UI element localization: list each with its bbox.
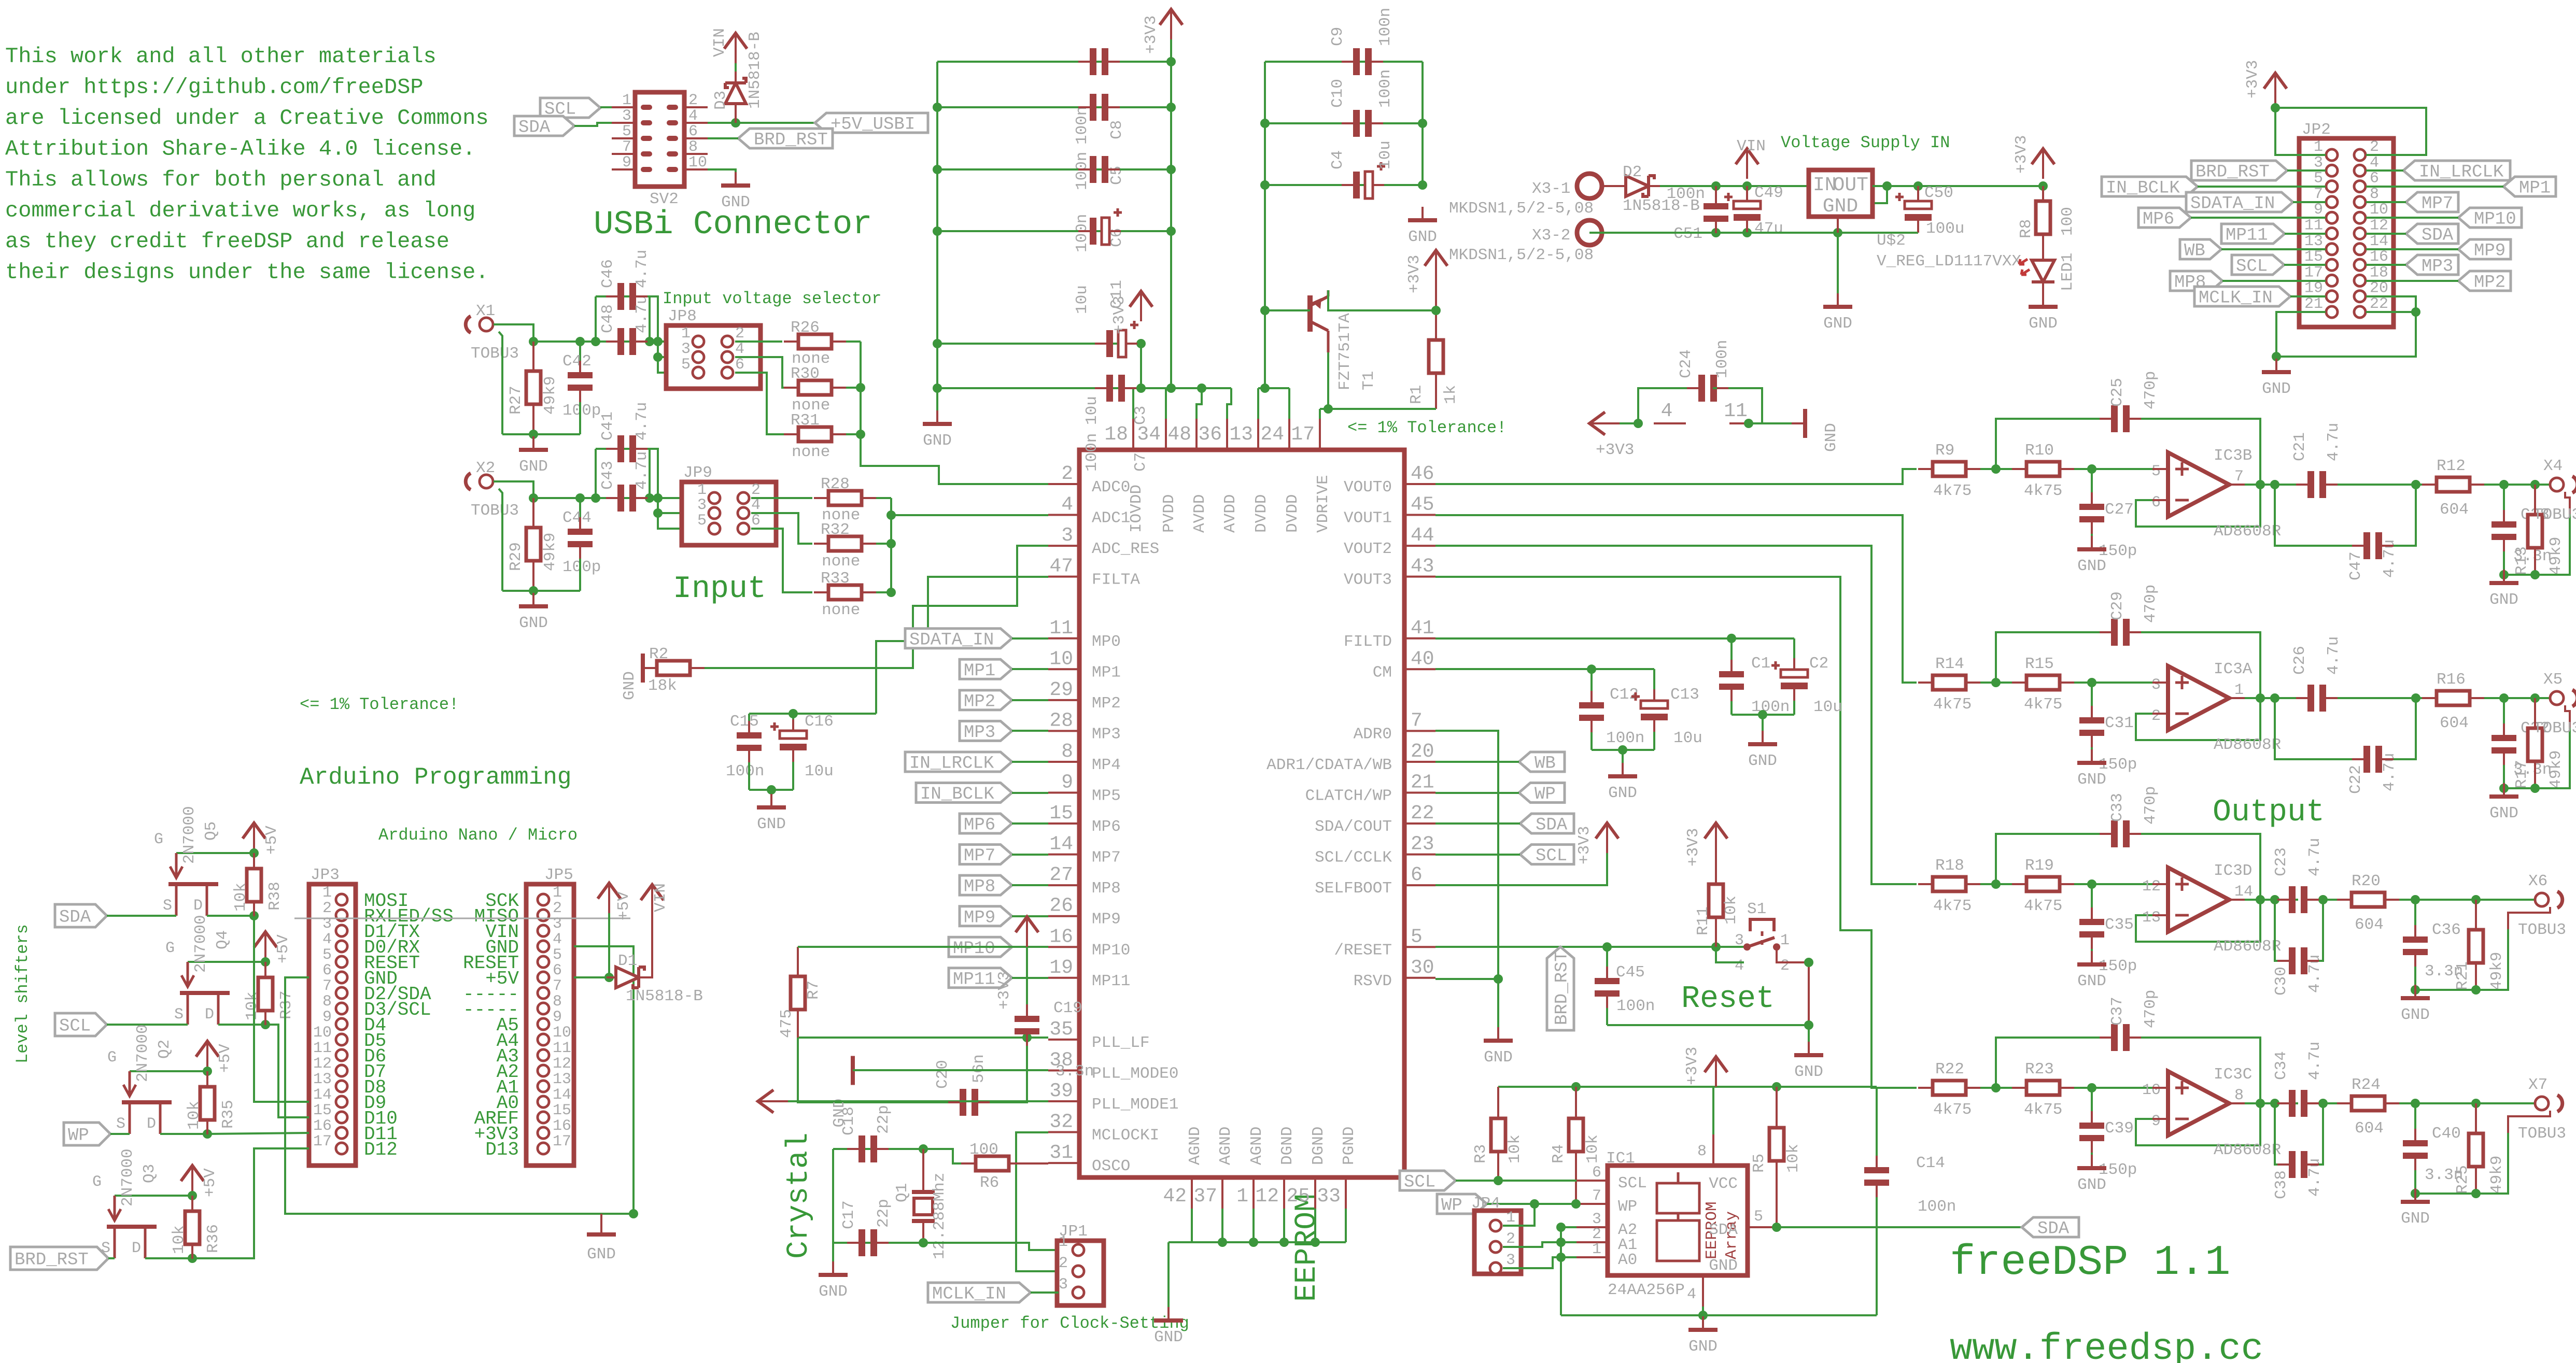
wire C39 bot	[2091, 1143, 2093, 1166]
svg-text:GND: GND	[1822, 423, 1840, 452]
svg-text:20: 20	[1411, 741, 1434, 763]
svg-text:48: 48	[1167, 423, 1191, 446]
svg-text:4.7u: 4.7u	[2306, 1042, 2324, 1080]
capacitor C16	[770, 713, 834, 780]
capacitor C22	[2347, 746, 2399, 794]
svg-text:29: 29	[1049, 679, 1073, 701]
svg-text:JP4: JP4	[1471, 1195, 1500, 1213]
wire tail gnd rail	[2504, 728, 2570, 788]
svg-text:TOBU3: TOBU3	[471, 502, 519, 520]
svg-text:16: 16	[553, 1117, 571, 1135]
svg-text:R33: R33	[821, 570, 850, 588]
wire R23 out	[2060, 1087, 2168, 1089]
header JP5 pins	[463, 884, 571, 1160]
svg-text:MP8: MP8	[1092, 879, 1121, 898]
capacitor C15	[726, 713, 764, 780]
+3V3 arrow selfboot	[1575, 823, 1618, 864]
wire R25 col	[2475, 1103, 2477, 1134]
wire gate Q5	[176, 852, 254, 854]
junction D Q5	[249, 911, 259, 920]
svg-text:MCLK_IN: MCLK_IN	[932, 1285, 1006, 1304]
svg-text:D: D	[147, 1115, 156, 1133]
svg-text:27: 27	[1049, 864, 1073, 886]
svg-text:24AA256P: 24AA256P	[1608, 1281, 1685, 1299]
svg-text:2N7000: 2N7000	[134, 1024, 152, 1082]
right ladder to pins	[1257, 388, 1259, 419]
capacitor C24	[1677, 340, 1732, 402]
svg-text:3: 3	[2314, 154, 2323, 172]
DSP bottom pins	[1163, 1127, 1358, 1209]
svg-text:R8: R8	[2017, 219, 2035, 238]
wire C28 bot	[2503, 542, 2505, 575]
bypass ladder left bus	[936, 62, 938, 415]
wire riser to jack	[2508, 907, 2550, 929]
flag BRD_RST reset	[1547, 947, 1574, 1030]
label X3-2	[1449, 226, 1594, 264]
flag WB	[1519, 752, 1565, 774]
wire R18 out	[1966, 883, 2027, 885]
svg-text:R11: R11	[1694, 906, 1712, 935]
wire tail gnd stub	[2414, 990, 2416, 996]
+3V3 arrow R11	[1684, 823, 1727, 867]
junction D Q3	[188, 1254, 197, 1263]
svg-text:10u: 10u	[1376, 140, 1395, 169]
flag MCLK_IN crystal	[928, 1283, 1031, 1304]
header JP9	[682, 464, 776, 545]
svg-text:GND: GND	[2489, 591, 2518, 609]
svg-text:OUT: OUT	[1833, 174, 1868, 196]
svg-text:AVDD: AVDD	[1221, 494, 1240, 533]
wire bypass right	[2388, 485, 2416, 546]
wire R3 top	[1497, 1087, 1499, 1119]
flag BRD_RST shifter	[10, 1247, 108, 1270]
resistor R1	[1407, 340, 1460, 404]
VIN arrow usbi	[711, 28, 747, 63]
svg-text:4k75: 4k75	[2024, 482, 2062, 500]
wire JP9 pin3 stub	[658, 512, 714, 514]
junction C7 row dots	[1136, 384, 1206, 393]
wire reset gnd stub	[1808, 1025, 1810, 1052]
svg-text:IC3C: IC3C	[2214, 1066, 2252, 1084]
svg-text:44: 44	[1411, 524, 1434, 547]
svg-text:8: 8	[688, 138, 698, 156]
capacitor C46	[599, 250, 651, 310]
resistor R13	[2513, 515, 2565, 575]
ground right ladder	[1408, 207, 1437, 246]
svg-text:+3V3: +3V3	[1110, 296, 1129, 334]
wire C19 drop	[1026, 947, 1028, 1016]
junction D3	[731, 118, 740, 127]
wire JP2 pin1 feed	[2275, 103, 2326, 155]
flag MP1	[960, 659, 1048, 681]
svg-text:2: 2	[688, 92, 698, 109]
svg-text:10: 10	[553, 1024, 571, 1042]
svg-text:Arduino Nano / Micro: Arduino Nano / Micro	[378, 826, 578, 845]
junction after cap	[2411, 693, 2420, 703]
svg-text:X5: X5	[2543, 671, 2563, 689]
svg-text:none: none	[822, 552, 860, 571]
svg-text:12: 12	[2370, 217, 2388, 235]
capacitor C30	[2272, 947, 2324, 996]
junction C24 right	[1744, 419, 1753, 428]
flag MP8	[960, 875, 1048, 897]
svg-text:+5V: +5V	[201, 1168, 219, 1197]
junction R14	[1991, 678, 2001, 687]
junction gate Q5	[249, 848, 259, 858]
svg-text:R37: R37	[277, 990, 295, 1019]
wire R27 bot	[532, 404, 534, 434]
wire SDA to SV2	[574, 123, 612, 126]
svg-text:PVDD: PVDD	[1160, 494, 1178, 533]
tolerance arrow label	[0, 0, 1, 1]
svg-text:R20: R20	[2352, 872, 2381, 890]
connector X1	[466, 302, 519, 363]
svg-text:40: 40	[1411, 648, 1434, 670]
svg-text:15: 15	[553, 1102, 571, 1119]
junction JP2 gnd	[2272, 352, 2281, 361]
flag IN_LRCLK jp2r	[2366, 161, 2510, 182]
svg-text:Voltage Supply IN: Voltage Supply IN	[1781, 133, 1950, 152]
wire C44 drop	[579, 498, 581, 527]
svg-text:R3: R3	[1472, 1144, 1490, 1163]
wire C42 bot	[579, 392, 581, 434]
junction tail	[2499, 693, 2540, 703]
svg-text:D13: D13	[485, 1139, 519, 1160]
capacitor C17	[840, 1199, 893, 1256]
svg-text:G: G	[107, 1049, 117, 1067]
svg-text:C23: C23	[2272, 847, 2290, 876]
svg-text:C4: C4	[1329, 150, 1347, 169]
diode D3 1N5818-B	[712, 32, 764, 110]
svg-text:AGND: AGND	[1186, 1127, 1204, 1165]
wire D Q2	[160, 1133, 207, 1135]
svg-text:+3V3: +3V3	[1142, 16, 1160, 54]
ground C39	[2077, 1155, 2106, 1194]
svg-text:C14: C14	[1916, 1154, 1945, 1172]
LED1	[2019, 253, 2077, 291]
svg-text:C50: C50	[1924, 184, 1953, 202]
IC1 GND pin	[1687, 1257, 1738, 1307]
svg-text:16: 16	[1049, 926, 1073, 948]
svg-text:VDRIVE: VDRIVE	[1314, 475, 1332, 533]
wire pin36 drop	[1227, 388, 1231, 419]
capacitor C38	[2272, 1151, 2324, 1199]
svg-text:7: 7	[2234, 468, 2244, 486]
junction OUT1	[1882, 181, 1892, 191]
wire JP9 bus to ADC1	[890, 498, 892, 592]
transistor T1 FZT751TA	[1310, 290, 1378, 390]
junction X1 gnd	[529, 430, 538, 439]
svg-text:MKDSN1,5/2-5,08: MKDSN1,5/2-5,08	[1449, 200, 1594, 218]
wire C15 drop	[748, 714, 750, 731]
svg-text:D1: D1	[618, 952, 637, 970]
svg-text:R19: R19	[2025, 857, 2054, 875]
svg-text:+3V3: +3V3	[1684, 828, 1702, 867]
svg-text:IC3A: IC3A	[2214, 660, 2253, 678]
wire R27 top	[532, 342, 534, 372]
svg-text:R21: R21	[2454, 961, 2472, 990]
svg-text:R1: R1	[1407, 385, 1426, 404]
ground C24 rotated	[1792, 409, 1840, 452]
ground SV2	[721, 172, 750, 211]
wire pll top rail	[798, 946, 1027, 948]
wire X2 out	[494, 481, 533, 498]
svg-text:MP11: MP11	[953, 970, 995, 989]
wire C31 bot	[2091, 737, 2093, 760]
svg-text:C39: C39	[2105, 1119, 2134, 1138]
svg-text:SCL: SCL	[1536, 846, 1567, 866]
flag SCL shifter	[55, 1013, 107, 1037]
capacitor C18	[840, 1105, 893, 1162]
svg-text:16: 16	[313, 1117, 332, 1135]
wire T1 emitter to +3V3	[1328, 290, 1436, 310]
junction gate Q4	[261, 957, 270, 967]
ground C31	[2077, 749, 2106, 789]
svg-text:5: 5	[681, 356, 691, 374]
svg-text:BRD_RST: BRD_RST	[2195, 163, 2270, 182]
svg-text:4k75: 4k75	[2024, 695, 2062, 714]
wire D Q3	[145, 1257, 192, 1259]
svg-text:18k: 18k	[648, 677, 677, 695]
op-amp IC3B	[2151, 447, 2281, 541]
resistor R26	[791, 319, 832, 368]
svg-text:12: 12	[2142, 878, 2161, 896]
svg-text:470p: 470p	[2142, 371, 2160, 409]
svg-text:C34: C34	[2272, 1051, 2290, 1080]
wire C14 bot	[1876, 1187, 1878, 1315]
title Input voltage selector	[663, 289, 881, 308]
wire X3-1 to D2	[1602, 185, 1617, 187]
ground left ladder	[923, 410, 952, 450]
svg-text:13: 13	[2142, 909, 2161, 927]
svg-text:GND: GND	[1154, 1328, 1183, 1346]
license note text	[5, 44, 489, 285]
DSP left pins	[1048, 463, 1178, 1175]
svg-text:47u: 47u	[1754, 220, 1783, 238]
svg-text:12: 12	[553, 1055, 571, 1073]
wire S1 pin4	[1716, 947, 1744, 962]
flag BRD_RST jp2	[2191, 161, 2326, 182]
wire C44 bot	[579, 549, 581, 591]
junction C45	[1602, 942, 1612, 952]
capacitor C32	[2491, 719, 2552, 779]
wire pin48 drop	[1196, 388, 1202, 419]
header JP3 pins	[313, 884, 454, 1160]
capacitor C26	[2291, 636, 2343, 712]
flag MP7 jp2r	[2366, 192, 2458, 214]
wire JP5 +5V	[574, 976, 609, 978]
svg-text:100n: 100n	[1751, 698, 1790, 716]
wire tail gnd stub	[2503, 575, 2505, 580]
ground X2	[519, 593, 548, 632]
wire JP3 gnd loop	[285, 946, 634, 1214]
svg-text:100n: 100n	[1616, 997, 1655, 1015]
svg-text:none: none	[792, 443, 830, 461]
junction SDA R5	[1772, 1223, 1781, 1232]
wire SV2 pin10	[708, 169, 736, 182]
svg-text:100n: 100n	[1918, 1198, 1956, 1216]
resistor R35	[185, 1087, 237, 1130]
flag SCL usbi	[540, 98, 600, 120]
svg-text:WP: WP	[68, 1126, 89, 1146]
wire C1C2 gnd rail	[1732, 714, 1794, 716]
wire reg gnd down	[1837, 233, 1839, 301]
svg-text:C18: C18	[840, 1106, 858, 1135]
junction RSVD	[1494, 974, 1503, 984]
junction eeprom rail	[1571, 1082, 1781, 1091]
svg-text:Arduino Programming: Arduino Programming	[300, 764, 572, 791]
svg-text:100n: 100n	[1376, 8, 1395, 46]
svg-text:C48: C48	[599, 304, 617, 333]
junction XTAL bot	[919, 1238, 928, 1247]
svg-text:R27: R27	[507, 386, 525, 415]
wire +5V drop	[608, 913, 610, 977]
svg-text:C33: C33	[2108, 793, 2127, 822]
capacitor C13	[1631, 686, 1702, 747]
+5V arrow R36	[181, 1166, 219, 1197]
svg-text:TOBU3: TOBU3	[2518, 921, 2566, 939]
svg-text:9: 9	[553, 1009, 562, 1026]
junction plus node	[2087, 464, 2096, 474]
resistor R37	[243, 977, 295, 1020]
junction JP5 +5V	[604, 973, 614, 982]
flag SDATA_IN jp2	[2186, 192, 2326, 214]
svg-text:7: 7	[553, 977, 562, 995]
svg-text:MP3: MP3	[1092, 725, 1121, 743]
svg-text:Jumper for Clock-Setting: Jumper for Clock-Setting	[950, 1314, 1189, 1333]
junction tail	[2411, 1099, 2481, 1108]
wire bypass loop	[2275, 485, 2357, 546]
wire C50 drop	[1917, 186, 1919, 201]
wire X2 sleeve	[499, 489, 502, 591]
resistor R18	[1933, 857, 1972, 915]
svg-text:4: 4	[553, 931, 562, 948]
regulator U$2 V_REG_LD1117VXX	[1809, 170, 2021, 271]
wire C14 drop	[1876, 1087, 1878, 1166]
svg-text:C9: C9	[1329, 27, 1347, 46]
wire R8 to LED	[2042, 234, 2044, 259]
svg-text:1: 1	[2234, 681, 2244, 699]
svg-text:MCLOCKI: MCLOCKI	[1092, 1127, 1159, 1145]
wire C46 row	[596, 295, 650, 297]
wire S Q3	[108, 1257, 115, 1259]
svg-text:GND: GND	[1794, 1063, 1823, 1081]
ground PLL_MODE0 rotated	[830, 1056, 853, 1127]
svg-text:5: 5	[1411, 926, 1423, 948]
+5V arrow R35	[196, 1041, 234, 1073]
wire bypass loop	[2275, 900, 2283, 961]
capacitor C2	[1771, 655, 1842, 716]
svg-text:100n: 100n	[1376, 69, 1395, 108]
flag MP3	[960, 721, 1048, 743]
wire JP4 pin3	[1503, 1257, 1576, 1268]
junction out	[2256, 1099, 2279, 1108]
junction after cap	[2318, 895, 2328, 904]
resistor R32	[821, 521, 862, 571]
svg-text:C8: C8	[1108, 120, 1126, 139]
flag +5V_USBI	[815, 113, 928, 135]
flag MP9	[960, 906, 1048, 928]
capacitor C39	[2079, 1119, 2137, 1179]
wire R21 bot	[2475, 962, 2477, 990]
svg-text:11: 11	[1049, 617, 1073, 640]
wire gate Q4	[188, 961, 265, 963]
svg-text:6: 6	[688, 123, 698, 140]
+3V3 arrow eeprom	[1683, 1047, 1727, 1087]
svg-text:7: 7	[322, 977, 332, 995]
svg-text:17: 17	[1291, 423, 1315, 446]
svg-text:41: 41	[1411, 617, 1434, 640]
resistor R20	[2352, 872, 2385, 934]
svg-text:4: 4	[735, 340, 744, 358]
svg-text:10k: 10k	[185, 1101, 203, 1130]
svg-text:SDA: SDA	[2037, 1219, 2070, 1239]
wire WB	[1435, 761, 1519, 763]
flag MP2	[960, 690, 1048, 712]
+3V3 arrow C24	[1589, 412, 1634, 459]
svg-text:3: 3	[697, 496, 707, 514]
svg-text:MP1: MP1	[964, 661, 995, 681]
wire VOUT1	[1435, 515, 1917, 683]
svg-text:7: 7	[1411, 709, 1423, 732]
wire OUT feedback jog	[1875, 186, 1887, 203]
svg-text:BRD_RST: BRD_RST	[754, 131, 828, 150]
svg-text:MP6: MP6	[2143, 210, 2174, 230]
svg-text:S: S	[174, 1006, 184, 1024]
svg-text:8: 8	[322, 993, 332, 1011]
svg-text:X3-2: X3-2	[1532, 226, 1570, 245]
+3V3 arrow JP2	[2244, 60, 2287, 103]
svg-text:4: 4	[322, 931, 332, 948]
svg-text:C31: C31	[2105, 714, 2134, 732]
capacitor C43	[599, 451, 651, 512]
wire R bot R36	[191, 1244, 193, 1258]
wire R28 right	[862, 497, 891, 499]
svg-text:+5V: +5V	[615, 891, 633, 920]
wire R9 out	[1966, 468, 2027, 470]
svg-text:PGND: PGND	[1340, 1127, 1358, 1165]
wire R21 col	[2475, 900, 2477, 930]
+3V3 arrow top center	[1142, 9, 1183, 54]
svg-text:GND: GND	[757, 815, 786, 833]
header SV2 pins	[612, 92, 708, 172]
wire ADR0	[1435, 731, 1498, 979]
wire R33 right	[862, 591, 891, 593]
svg-text:X6: X6	[2528, 872, 2547, 890]
svg-text:R35: R35	[219, 1100, 237, 1129]
svg-text:C40: C40	[2432, 1125, 2461, 1143]
svg-text:6: 6	[735, 356, 744, 374]
junction R9	[1991, 464, 2001, 474]
junction eeprom gnd	[1698, 1311, 1708, 1320]
svg-text:4k75: 4k75	[1933, 482, 1972, 500]
svg-text:MP9: MP9	[2474, 242, 2505, 261]
junction C43 right	[645, 493, 654, 503]
svg-text:R36: R36	[204, 1224, 222, 1253]
wire D2 to regulator	[1655, 185, 1809, 187]
wire R24 out	[2385, 1102, 2535, 1104]
svg-text:X2: X2	[476, 459, 495, 477]
svg-text:10: 10	[313, 1024, 332, 1042]
connector X2	[466, 459, 519, 520]
capacitor C37	[2108, 990, 2160, 1051]
junction out	[2256, 480, 2279, 489]
svg-text:2: 2	[2370, 138, 2379, 156]
svg-text:GND: GND	[2029, 315, 2058, 333]
wire C43 right	[649, 449, 651, 498]
wire to JP8 pin1	[650, 340, 698, 343]
svg-text:D2: D2	[1623, 163, 1642, 181]
